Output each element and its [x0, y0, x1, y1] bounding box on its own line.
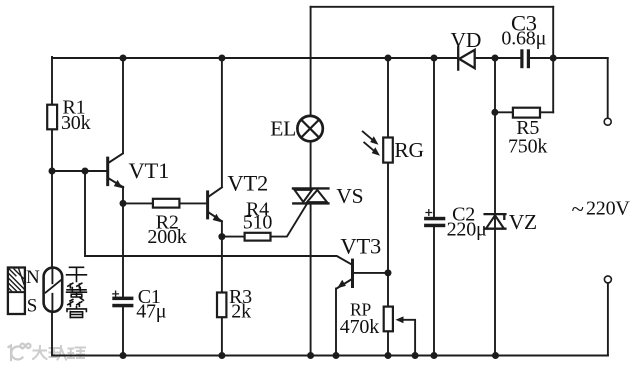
wire left branch vertical	[51, 57, 53, 356]
wire R4 row and triac gate	[222, 203, 308, 237]
svg-text:VT1: VT1	[129, 158, 170, 183]
potentiometer RP wiper arrow	[396, 316, 404, 323]
wire VT1 base	[52, 170, 107, 172]
potentiometer RP body	[384, 307, 393, 332]
resistor R2	[153, 199, 180, 208]
wire main upper rail	[52, 57, 608, 59]
svg-text:VD: VD	[451, 28, 482, 52]
svg-text:47μ: 47μ	[136, 300, 166, 322]
triac VS	[293, 188, 328, 203]
wire VT3 collector	[354, 272, 388, 274]
wire VT1 emitter / C1 vertical	[122, 187, 124, 356]
resistor R3	[217, 293, 226, 318]
wire lower right terminal leg	[607, 283, 609, 355]
svg-text:RG: RG	[394, 138, 423, 162]
wire VT3 emitter vertical	[335, 289, 337, 356]
svg-text:2k: 2k	[231, 300, 251, 322]
wire upper right terminal leg	[553, 58, 608, 118]
wire VT2 emitter / R3 vertical	[221, 221, 223, 355]
wire VT1 collector vertical	[122, 58, 124, 153]
resistor R4	[245, 233, 271, 241]
wire R2 row	[123, 202, 206, 204]
wire lamp branch vertical	[310, 7, 312, 356]
svg-text:30k: 30k	[61, 112, 91, 134]
watermark text (stylized)	[33, 346, 85, 360]
capacitor C2 (polarized)	[424, 210, 445, 228]
photoresistor RG light arrows	[363, 132, 380, 156]
svg-text:220V: 220V	[586, 198, 630, 220]
svg-text:200k: 200k	[147, 226, 186, 248]
watermark logo	[9, 344, 31, 360]
wire VT2 collector vertical	[221, 58, 223, 186]
photoresistor RG body	[383, 138, 393, 163]
label reed switch (Chinese 干簧管, drawn)	[67, 267, 87, 317]
terminal lower	[604, 276, 611, 283]
resistor R1	[47, 105, 57, 130]
resistor R5	[513, 108, 540, 118]
wire R5 row	[495, 111, 553, 113]
lamp EL	[297, 116, 322, 141]
magnet (N/S)	[8, 268, 25, 315]
svg-text:470k: 470k	[340, 316, 379, 338]
wire C2 branch vertical	[433, 58, 435, 356]
svg-text:220μ: 220μ	[447, 218, 487, 240]
transistor VT3	[336, 259, 354, 289]
svg-text:N: N	[26, 267, 40, 288]
reed switch capsule	[44, 268, 63, 312]
capacitor C3	[520, 49, 530, 68]
svg-text:0.68μ: 0.68μ	[501, 28, 546, 50]
zener diode VZ	[485, 214, 506, 229]
wire bottom rail	[52, 355, 608, 357]
svg-text:VT2: VT2	[227, 171, 268, 196]
wire RP wiper leg	[402, 320, 416, 356]
transistor VT1	[106, 154, 123, 189]
wire feedback from VT1 base to VT3 base	[85, 171, 352, 265]
svg-text:510: 510	[243, 211, 273, 233]
svg-text:VT3: VT3	[340, 234, 381, 259]
svg-text:VS: VS	[336, 184, 363, 208]
diode VD	[458, 47, 475, 69]
svg-text:~: ~	[572, 197, 584, 222]
wire VZ branch vertical	[494, 58, 496, 356]
wire top rail	[311, 6, 554, 8]
transistor VT2	[206, 187, 222, 222]
svg-text:750k: 750k	[508, 135, 547, 157]
capacitor C1 (polarized)	[112, 291, 133, 307]
terminal upper	[604, 118, 611, 125]
svg-text:S: S	[27, 295, 37, 316]
wire RG / RP branch vertical	[387, 58, 389, 356]
wire C3 right / R5 right vertical	[552, 7, 554, 113]
svg-text:EL: EL	[270, 117, 296, 141]
svg-text:VZ: VZ	[509, 210, 537, 234]
